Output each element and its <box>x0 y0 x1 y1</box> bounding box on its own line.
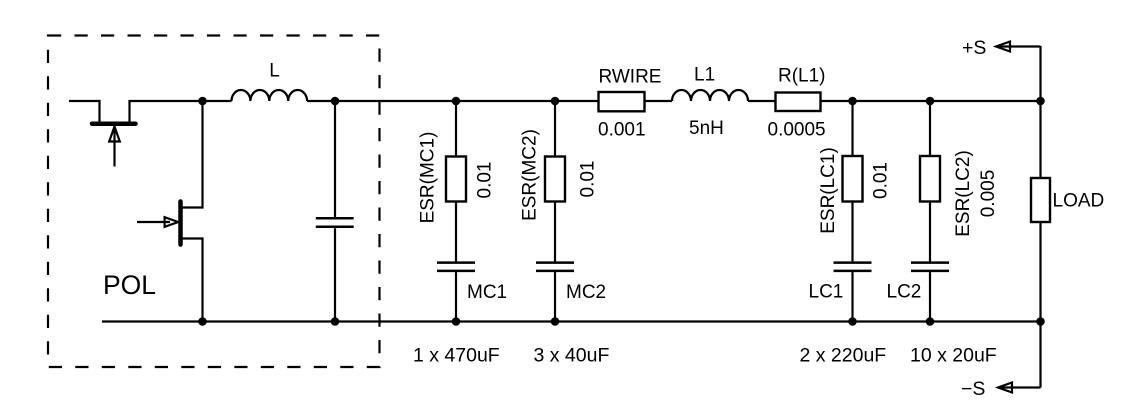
svg-text:POL: POL <box>103 270 156 300</box>
svg-text:0.0005: 0.0005 <box>768 120 826 141</box>
svg-text:ESR(MC1): ESR(MC1) <box>418 132 439 224</box>
svg-text:0.005: 0.005 <box>978 170 999 218</box>
svg-text:MC1: MC1 <box>467 282 507 303</box>
svg-text:3 x 40uF: 3 x 40uF <box>534 345 610 367</box>
svg-text:ESR(LC2): ESR(LC2) <box>953 150 974 237</box>
svg-text:0.001: 0.001 <box>598 120 646 141</box>
svg-text:0.01: 0.01 <box>871 162 892 199</box>
svg-text:LOAD: LOAD <box>1053 191 1105 212</box>
svg-text:MC2: MC2 <box>566 282 606 303</box>
svg-text:ESR(MC2): ESR(MC2) <box>520 129 541 221</box>
svg-text:L: L <box>269 61 280 82</box>
svg-text:−S: −S <box>961 378 985 400</box>
svg-text:0.01: 0.01 <box>475 162 496 199</box>
svg-text:2 x 220uF: 2 x 220uF <box>800 345 887 367</box>
svg-text:RWIRE: RWIRE <box>599 67 662 88</box>
svg-text:+S: +S <box>962 37 986 59</box>
svg-text:LC2: LC2 <box>887 282 922 303</box>
svg-text:0.01: 0.01 <box>578 161 599 198</box>
svg-text:5nH: 5nH <box>689 118 724 139</box>
svg-text:10 x 20uF: 10 x 20uF <box>910 345 997 367</box>
svg-text:L1: L1 <box>694 65 715 86</box>
svg-text:R(L1): R(L1) <box>778 66 826 87</box>
svg-text:1 x 470uF: 1 x 470uF <box>413 345 500 367</box>
svg-text:LC1: LC1 <box>809 282 844 303</box>
svg-text:ESR(LC1): ESR(LC1) <box>818 147 839 234</box>
